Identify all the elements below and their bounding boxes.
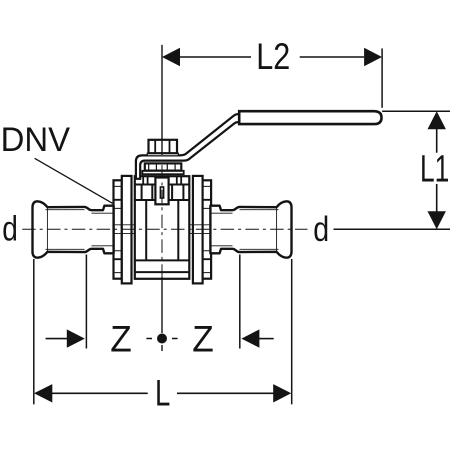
Z right tail line	[259, 338, 274, 340]
left end-cap flange	[122, 176, 132, 284]
Z left arrow	[67, 329, 85, 347]
left socket inner wall lines	[46, 210, 85, 250]
L2 right extension line	[381, 48, 383, 107]
svg-text:L: L	[155, 373, 170, 414]
left tube hidden lines	[92, 213, 114, 246]
vertical centerline lower	[161, 277, 163, 333]
center point ticks	[146, 339, 177, 352]
L2 left arrow	[162, 48, 180, 66]
chamber bottom line	[135, 259, 190, 261]
body bottom plate line	[135, 271, 190, 273]
svg-text:L1: L1	[420, 148, 449, 190]
svg-text:Z: Z	[192, 318, 214, 359]
L1 bottom arrow	[428, 211, 446, 229]
gland hex	[145, 163, 182, 170]
stem housing	[155, 178, 168, 205]
bolt head verticals	[143, 176, 181, 184]
chamber wall left	[145, 200, 147, 260]
right socket inner wall lines	[240, 210, 279, 250]
L dimension line	[52, 392, 274, 394]
chamber wall right	[177, 200, 179, 260]
body top plate line	[135, 184, 190, 186]
L1 top arrow	[428, 111, 446, 129]
L left extension line	[33, 259, 35, 404]
svg-text:DNV: DNV	[1, 121, 71, 159]
Z right arrow	[241, 329, 259, 347]
stem nut flats	[155, 140, 169, 153]
left press fitting body	[33, 201, 114, 257]
right end-cap flange	[193, 176, 203, 284]
bolt boss verticals	[142, 185, 184, 201]
L2 dimension line	[180, 56, 364, 58]
port bore lines right	[189, 225, 211, 234]
svg-text:Z: Z	[110, 318, 132, 359]
right bead boundary line	[276, 208, 278, 252]
port bore lines left	[114, 225, 135, 234]
right hex adapter	[202, 180, 211, 278]
right hex facet lines	[202, 200, 211, 259]
vertical centerline through valve	[161, 165, 163, 277]
L1 dimension line	[436, 127, 438, 212]
L left arrow	[34, 384, 52, 402]
left bead boundary line	[46, 208, 48, 252]
L right extension line	[291, 259, 293, 404]
svg-text:L2: L2	[256, 36, 290, 77]
valve body	[135, 176, 190, 279]
L right arrow	[273, 384, 291, 402]
handle grip	[239, 111, 381, 124]
stem nut washer	[147, 153, 178, 156]
left hex adapter	[114, 180, 122, 278]
chamber shoulder line	[135, 199, 190, 201]
center point dot	[157, 334, 167, 344]
DNV leader line	[35, 158, 113, 203]
svg-text:d: d	[2, 210, 18, 249]
L2 right arrow	[364, 48, 382, 66]
svg-text:d: d	[313, 210, 329, 249]
stem slot	[160, 187, 163, 198]
Z left tail line	[46, 338, 67, 340]
L1 top extension line	[382, 110, 450, 112]
Z right extension line	[239, 255, 241, 349]
left hex facet lines	[114, 200, 122, 259]
handle arm	[136, 114, 240, 179]
vertical centerline upper	[161, 45, 163, 155]
gland hex flats	[149, 163, 175, 170]
packing washer plate	[142, 171, 183, 174]
L1 bottom extension line	[334, 228, 450, 230]
right tube hidden lines	[210, 213, 232, 246]
Z left extension line	[85, 255, 87, 349]
stem nut	[149, 140, 178, 153]
horizontal centerline	[22, 228, 307, 230]
right press fitting body	[210, 201, 291, 257]
